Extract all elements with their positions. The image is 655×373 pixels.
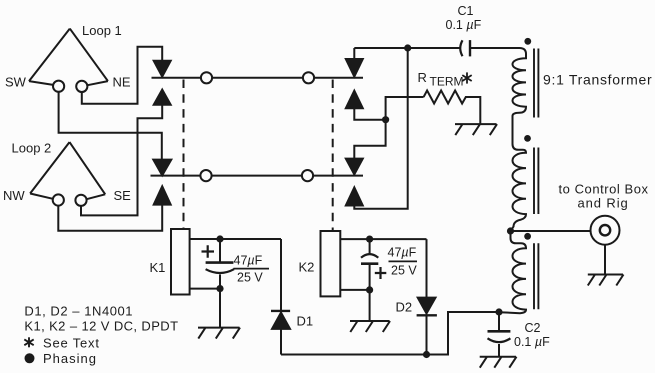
svg-text:Phasing: Phasing <box>43 351 97 366</box>
value 47uF / 25V <box>234 254 264 285</box>
tap wire to connector <box>511 230 591 232</box>
wire NW terminal to K1 lower contact (up arrow) <box>58 205 162 231</box>
svg-text:0.1 µF: 0.1 µF <box>446 18 482 32</box>
diode D1 <box>271 311 290 355</box>
bullet note symbol <box>25 353 35 363</box>
wire top rail to K2 down arrow row1 <box>353 48 355 59</box>
svg-text:C2: C2 <box>525 321 541 335</box>
label R TERM* <box>418 70 464 89</box>
svg-text:See Text: See Text <box>43 336 100 351</box>
svg-text:NW: NW <box>3 188 25 203</box>
transformer core section 1 <box>534 49 538 118</box>
junction dot C2 node <box>495 308 502 315</box>
contact circle row2 left <box>200 170 211 181</box>
loop antenna LOOP1 <box>29 29 108 92</box>
relay K1 contact arrow down row2 <box>153 160 171 176</box>
relay K1 contact arrow up row1 <box>154 90 171 105</box>
contact circle row1 left <box>201 72 212 83</box>
wire K2 top to cap and D2 <box>340 239 426 298</box>
junction node <box>382 116 389 123</box>
relay K1 contact arrow down row1 <box>154 61 171 77</box>
svg-text:47µF: 47µF <box>234 254 263 268</box>
junction dot <box>423 351 430 358</box>
capacitor 47uF K1 <box>202 239 235 289</box>
wire NE terminal to K1 upper contact <box>82 47 162 104</box>
wire K1 bottom to cap <box>190 288 220 290</box>
svg-text:Loop 2: Loop 2 <box>12 141 52 156</box>
notes text block <box>24 304 178 367</box>
relay coil K1 <box>171 229 190 295</box>
dashed relay linkage K2 <box>332 80 334 232</box>
relay K2 contact arrow down row2 <box>346 159 363 175</box>
wire SE terminal to K1 upper contact (up arrow) <box>81 105 162 216</box>
transformer core section 2 <box>534 148 538 215</box>
svg-text:D1: D1 <box>297 314 314 329</box>
contact circle row1 right <box>303 72 314 83</box>
resistor R TERM <box>424 91 481 125</box>
svg-text:and Rig: and Rig <box>578 196 629 211</box>
diode D2 <box>417 298 437 355</box>
wire SW terminal to K1 lower contact <box>59 92 162 160</box>
svg-text:0.1 µF: 0.1 µF <box>514 335 550 349</box>
ground connector <box>588 245 624 286</box>
junction dot <box>366 236 373 243</box>
svg-text:D2: D2 <box>396 300 413 315</box>
svg-text:25 V: 25 V <box>391 264 417 278</box>
bottom rail wire <box>281 312 499 355</box>
svg-text:47µF: 47µF <box>388 246 417 260</box>
transformer T1 winding (9:1) <box>499 48 526 313</box>
relay K2 contact arrow down row1 <box>346 59 363 77</box>
value 47uF / 25V <box>388 246 418 278</box>
svg-text:K1: K1 <box>150 260 166 275</box>
capacitor C1 <box>460 40 519 56</box>
wire K2 up arrow row1 to node <box>354 97 423 120</box>
loop antenna LOOP2 <box>30 142 105 206</box>
svg-text:K1, K2 – 12 V DC, DPDT: K1, K2 – 12 V DC, DPDT <box>24 319 178 334</box>
phasing dot winding 3 <box>524 233 531 240</box>
phasing dot winding 1 <box>524 38 531 45</box>
svg-text:C1: C1 <box>458 4 474 18</box>
svg-text:R: R <box>418 70 427 85</box>
svg-text:SW: SW <box>5 75 27 90</box>
coax connector J1 <box>591 216 620 245</box>
relay K2 contact arrow up row2 <box>346 187 363 205</box>
junction dot <box>216 235 223 242</box>
wire K1 top to cap and D1 <box>190 239 281 311</box>
junction dot <box>216 285 223 292</box>
relay coil K2 <box>321 231 341 296</box>
transformer core section 3 <box>534 243 538 309</box>
wire K2 bottom to cap <box>340 289 369 291</box>
relay K1 contact row 1 (pole line) <box>152 77 364 79</box>
ground C2 <box>480 357 517 368</box>
svg-text:TERM: TERM <box>430 75 464 89</box>
svg-text:D1, D2 – 1N4001: D1, D2 – 1N4001 <box>24 304 133 319</box>
capacitor C2 <box>488 312 511 357</box>
svg-text:SE: SE <box>114 188 132 203</box>
svg-text:to Control Box: to Control Box <box>559 182 649 197</box>
relay K1 contact row 2 (pole line) <box>151 175 364 177</box>
ground K2 <box>350 290 390 332</box>
junction dot tap <box>507 227 514 234</box>
dashed relay linkage K1 <box>183 80 185 230</box>
svg-text:Loop 1: Loop 1 <box>82 23 122 38</box>
phasing dot winding 2 <box>524 135 531 142</box>
svg-text:K2: K2 <box>299 260 315 275</box>
ground K1 <box>198 289 240 339</box>
asterisk note symbol <box>24 337 33 347</box>
capacitor 47uF K2 <box>361 239 386 290</box>
wire node to K2 down arrow row2 <box>354 120 385 159</box>
top rail to C1 <box>354 47 460 49</box>
contact circle row2 right <box>302 170 313 181</box>
svg-text:9:1 Transformer: 9:1 Transformer <box>543 72 652 88</box>
relay K1 contact arrow up row2 <box>154 186 171 204</box>
label to Control Box and Rig <box>559 182 649 211</box>
svg-text:NE: NE <box>113 75 131 90</box>
wire K2 up arrow row2 to top rail <box>354 48 407 209</box>
relay K2 contact arrow up row1 <box>346 91 363 109</box>
junction dot <box>404 44 411 51</box>
ground R TERM <box>455 124 497 135</box>
svg-text:25 V: 25 V <box>237 271 263 285</box>
junction dot <box>366 286 373 293</box>
